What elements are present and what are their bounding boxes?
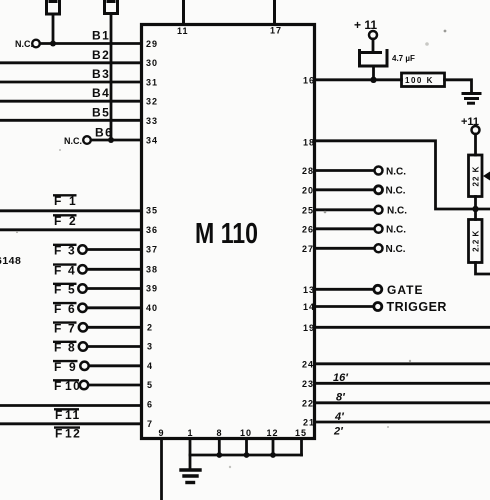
junction pin16/C1 (370, 77, 376, 83)
node N.C. pin 27 (375, 244, 383, 252)
wire F11 (0, 404, 142, 407)
wire stub right of R4 (483, 172, 490, 181)
svg-text:16′: 16′ (333, 372, 349, 384)
node F4 terminal (78, 265, 86, 273)
svg-text:25: 25 (302, 205, 314, 215)
junction B1/R1 (50, 41, 56, 47)
svg-text:GATE: GATE (387, 283, 423, 297)
paper specks (16, 30, 447, 469)
wire F4 (87, 268, 142, 271)
svg-text:16: 16 (303, 75, 315, 85)
resistor R5 2.2K (469, 220, 483, 263)
svg-text:20: 20 (302, 185, 314, 195)
svg-text:8: 8 (217, 428, 223, 438)
wire pin 8 drop (218, 439, 221, 456)
svg-text:13: 13 (303, 285, 315, 295)
svg-text:N.C.: N.C. (15, 39, 33, 49)
wire R4 to junction (474, 197, 477, 210)
node label F10 (53, 379, 81, 393)
wire F1 (0, 209, 142, 212)
wire B6 (91, 139, 142, 142)
node N.C. terminal B1 (32, 40, 40, 48)
node F3 terminal (78, 245, 86, 253)
junction B6/R2 (108, 137, 114, 143)
node label F7 (53, 321, 77, 335)
wire F8 (88, 345, 142, 348)
svg-text:B4: B4 (92, 86, 110, 100)
wire pin 21 (4'/2') (315, 421, 490, 424)
svg-text:2.2 K: 2.2 K (472, 230, 481, 252)
junction divider node (472, 206, 478, 212)
wire pin 15 drop (300, 439, 303, 456)
svg-text:22: 22 (302, 398, 314, 408)
node +11 terminal C1 (369, 31, 377, 39)
wire F6 (87, 306, 142, 309)
wire 100K to ground (445, 80, 472, 92)
svg-text:+ 11: + 11 (354, 18, 377, 32)
svg-text:17: 17 (270, 26, 282, 36)
ground (bottom, pin 1) (181, 470, 200, 483)
wire R5 top lead (474, 209, 477, 220)
node label F2 (53, 214, 77, 228)
wire pin 17 top (273, 0, 276, 25)
svg-text:N.C.: N.C. (386, 166, 406, 177)
node label F9 (53, 360, 78, 374)
resistor R1 (top left, value cut off) (47, 0, 60, 14)
svg-text:30: 30 (146, 58, 158, 68)
wire B1 (40, 42, 142, 45)
node label F8 (53, 341, 77, 355)
svg-text:19: 19 (303, 323, 315, 333)
node +11 terminal divider (472, 126, 480, 134)
svg-text:TRIGGER: TRIGGER (387, 300, 447, 314)
svg-text:4.7 µF: 4.7 µF (392, 54, 415, 63)
wire pin 18 (315, 141, 490, 209)
svg-text:2′: 2′ (333, 426, 344, 438)
svg-text:8′: 8′ (336, 392, 346, 404)
node N.C. pin 20 (375, 186, 383, 194)
svg-text:28: 28 (302, 166, 314, 176)
svg-text:N.C.: N.C. (386, 186, 406, 197)
wire pin 12 drop (272, 439, 275, 456)
svg-text:B2: B2 (92, 48, 110, 62)
svg-text:B6: B6 (95, 126, 113, 140)
svg-text:23: 23 (302, 379, 314, 389)
svg-text:36: 36 (146, 225, 158, 235)
junction pin 8 bus (216, 452, 222, 458)
svg-text:1: 1 (188, 428, 194, 438)
svg-text:32: 32 (146, 97, 158, 107)
wire pin 16 (315, 78, 402, 81)
svg-text:5: 5 (147, 380, 153, 390)
svg-text:29: 29 (146, 39, 158, 49)
svg-text:100 K: 100 K (405, 76, 434, 85)
resistor R4 22K (469, 155, 483, 197)
wire F10 (89, 384, 142, 387)
svg-text:24: 24 (302, 359, 314, 369)
wire B2 (0, 61, 142, 64)
svg-text:31: 31 (146, 78, 158, 88)
wire F12 (0, 422, 142, 425)
node F6 terminal (78, 304, 86, 312)
resistor R3 100K (402, 73, 445, 87)
wire F3 (87, 248, 142, 251)
svg-text:11: 11 (177, 26, 189, 36)
svg-text:33: 33 (146, 116, 158, 126)
node label F12 (54, 426, 81, 440)
wire pin 19 (315, 326, 490, 329)
wire pin 26 (315, 227, 375, 230)
svg-text:4′: 4′ (334, 411, 345, 423)
node label F3 (53, 244, 77, 258)
node N.C. pin 28 (375, 167, 383, 175)
svg-text:N.C.: N.C. (386, 225, 406, 236)
wire B5 (0, 119, 142, 122)
svg-text:B5: B5 (92, 105, 110, 119)
wire B4 (0, 100, 142, 103)
node N.C. pin 25 (375, 206, 383, 214)
svg-text:10: 10 (240, 428, 252, 438)
wire F2 (0, 228, 142, 231)
svg-text:38: 38 (146, 264, 158, 274)
wire pin 24 (315, 362, 490, 365)
wire pin 1 drop (189, 439, 192, 469)
node N.C. pin 26 (375, 225, 383, 233)
svg-text:39: 39 (146, 284, 158, 294)
svg-text:26: 26 (302, 224, 314, 234)
wire pin 27 (315, 247, 375, 250)
node label F5 (53, 283, 77, 297)
svg-text:14: 14 (303, 302, 315, 312)
node GATE terminal (374, 285, 382, 293)
svg-text:40: 40 (146, 303, 158, 313)
junction pin 10 bus (244, 452, 250, 458)
junction pin 12 bus (270, 452, 276, 458)
node label F1 (53, 194, 77, 208)
wire pin 13 GATE (315, 288, 374, 291)
wire B3 (0, 81, 142, 84)
svg-text:7: 7 (147, 419, 153, 429)
svg-text:N.C.: N.C. (387, 206, 407, 217)
wire pin 25 (315, 208, 375, 211)
resistor R2 (top, value cut off) (105, 0, 118, 14)
svg-text:B3: B3 (92, 67, 110, 81)
svg-text:9: 9 (159, 428, 165, 438)
svg-text:18: 18 (303, 137, 315, 147)
node F8 terminal (79, 342, 87, 350)
node label F4 (53, 263, 77, 277)
wire pin 28 (315, 169, 375, 172)
svg-text:12: 12 (267, 428, 279, 438)
wire +11 to R4 (474, 134, 477, 155)
svg-text:35: 35 (146, 206, 158, 216)
wire pin 14 TRIGGER (315, 305, 374, 308)
svg-text:N.C.: N.C. (386, 244, 406, 255)
node F5 terminal (78, 284, 86, 292)
node F10 terminal (80, 381, 88, 389)
svg-text:15: 15 (295, 428, 307, 438)
wire bottom bus (190, 454, 302, 457)
wire F5 (87, 287, 142, 290)
wire pin 11 top (182, 0, 185, 25)
wire R1 lead (52, 14, 55, 44)
svg-text:M 110: M 110 (195, 218, 258, 250)
wire R5 bottom lead to edge (476, 263, 490, 275)
svg-text:N.C.: N.C. (64, 136, 82, 146)
ground (top right) (463, 94, 480, 104)
svg-text:34: 34 (146, 136, 158, 146)
wire pin 23 (16') (315, 382, 490, 385)
svg-text:B1: B1 (92, 29, 110, 43)
wire pin 22 (8') (315, 401, 490, 404)
node TRIGGER terminal (374, 303, 382, 311)
svg-text:6: 6 (147, 400, 153, 410)
capacitor C1 4.7uF (360, 39, 388, 80)
svg-text:21: 21 (303, 418, 315, 428)
svg-text:22 K: 22 K (472, 166, 481, 187)
wire F7 (88, 326, 142, 329)
svg-text:+11: +11 (461, 116, 479, 128)
svg-text:27: 27 (302, 244, 314, 254)
svg-text:2: 2 (147, 322, 153, 332)
node label F11 (54, 408, 81, 422)
IC U1 M 110 body (142, 25, 315, 439)
wire pin 10 drop (245, 439, 248, 456)
node N.C. terminal B6 (83, 136, 91, 144)
node F9 terminal (80, 362, 88, 370)
svg-text:3: 3 (147, 342, 153, 352)
wire pin 20 (315, 188, 375, 191)
node F7 terminal (79, 323, 87, 331)
svg-text:4: 4 (147, 361, 153, 371)
wire pin 9 bottom (160, 439, 163, 500)
wire R2 lead down to B6 (110, 14, 113, 141)
svg-text:37: 37 (146, 245, 158, 255)
svg-text:6148: 6148 (0, 255, 21, 267)
node label F6 (53, 302, 77, 316)
wire F9 (89, 364, 142, 367)
